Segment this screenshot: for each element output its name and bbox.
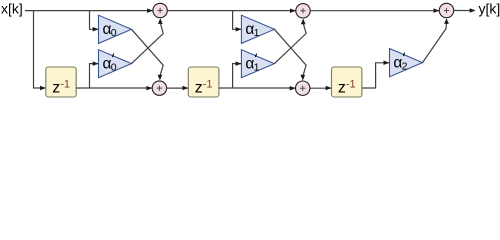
adder U3 (top, stage 2) xyxy=(296,4,310,18)
wire: top rail branch down into gain a0 xyxy=(90,11,99,32)
gain a1' (triangle amplifier) xyxy=(241,50,274,78)
wire: bottom rail branch up into gain a1' xyxy=(233,61,242,88)
adder U1 (top, stage 1) xyxy=(153,3,167,17)
wire: output arrow to y[k] xyxy=(454,8,476,13)
svg-text:x[k]: x[k] xyxy=(1,1,23,17)
wire: gain a0 output cross down into adder U2 xyxy=(132,29,164,80)
gain a2' (triangle amplifier) xyxy=(390,49,423,77)
wire: top rail branch down into gain a1 xyxy=(233,11,242,32)
wire: delay Z3 out up into gain a2' xyxy=(362,61,389,88)
wire: delay Z2 out along bottom rail to adder U4 xyxy=(219,86,296,91)
node y[k] output label xyxy=(479,1,500,17)
wire: bottom rail branch up into gain a0' xyxy=(90,61,99,88)
wire: top rail adder U1 to adder U3 xyxy=(167,8,296,13)
delay block Z1 (z^-1) xyxy=(46,67,76,97)
wire: input branch down into delay Z1 xyxy=(34,11,46,91)
gain a0' (triangle amplifier) xyxy=(99,50,132,78)
adder U2 (bottom, stage 1) xyxy=(152,81,166,95)
delay block Z2 (z^-1) xyxy=(188,67,219,97)
wire: gain a1 output cross down into adder U4 xyxy=(274,29,306,80)
wire: delay Z1 out along bottom rail to adder U2 xyxy=(76,86,152,91)
adder U4 (bottom, stage 2) xyxy=(296,81,310,95)
wire: gain a2' output up into adder U5 xyxy=(423,18,449,62)
wire: gain a0' output cross up into adder U1 xyxy=(132,18,164,63)
wire: top rail adder U3 to adder U5 xyxy=(310,8,439,13)
wire: adder U2 out into delay Z2 xyxy=(167,86,189,91)
gain a1 (triangle amplifier) xyxy=(241,15,274,43)
svg-text:y[k]: y[k] xyxy=(479,1,500,17)
adder U5 (output adder) xyxy=(439,3,453,17)
node x[k] input label xyxy=(1,1,23,17)
wire: top rail x[k] to adder U1 xyxy=(25,8,153,13)
gain a0 (triangle amplifier) xyxy=(99,15,132,43)
delay block Z3 (z^-1) xyxy=(332,67,362,97)
wire: adder U4 out into delay Z3 xyxy=(310,86,332,91)
wire: gain a1' output cross up into adder U3 xyxy=(274,19,306,64)
